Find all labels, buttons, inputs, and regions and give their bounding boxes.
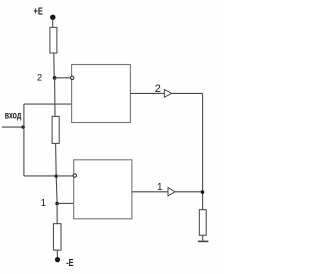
- svg-text:-E: -E: [66, 258, 74, 269]
- resistor R3: [53, 224, 61, 250]
- junction dot (R2 bottom net with input branch): [55, 174, 58, 177]
- input terminal junction dot: [22, 125, 25, 128]
- wire R2 bottom through junction to node 1: [56, 143, 58, 203]
- buffer triangle (output 2): [164, 90, 171, 98]
- resistor R4: [199, 210, 206, 236]
- wire R4 bottom to ground: [202, 235, 204, 241]
- ground bar: [198, 240, 209, 242]
- wire +E terminal to R1 top: [52, 19, 54, 27]
- U1 input inversion circle: [71, 76, 74, 79]
- wire input vertical branch: [23, 104, 25, 176]
- resistor R2: [52, 116, 59, 143]
- +E supply terminal dot: [50, 15, 55, 20]
- wire buffer 1 to output bus: [175, 191, 203, 193]
- resistor R1: [50, 27, 57, 53]
- wire buffer 2 to output bus corner: [172, 92, 203, 94]
- wire U1 output to buffer: [130, 92, 164, 94]
- comparator U1 box: [72, 65, 131, 123]
- wire R1 bottom to node 2: [53, 53, 55, 78]
- svg-text:2: 2: [155, 83, 161, 95]
- svg-text:2: 2: [37, 72, 42, 83]
- node 1 junction dot: [55, 202, 59, 206]
- -E supply terminal dot: [55, 257, 60, 262]
- output bus junction dot: [201, 190, 205, 194]
- wire R3 bottom to -E terminal: [56, 250, 58, 257]
- node 2 junction dot: [53, 76, 57, 80]
- U2 input inversion circle: [73, 174, 76, 177]
- comparator U2 box: [74, 160, 132, 219]
- buffer triangle (output 1): [168, 188, 175, 197]
- wire output bus vertical: [202, 93, 204, 209]
- svg-text:вход: вход: [5, 110, 22, 121]
- wire input lower branch to U2 upper input: [24, 175, 75, 177]
- wire input lead: [2, 126, 23, 128]
- wire node 1 to U2 lower input: [57, 202, 74, 204]
- wire U2 output to buffer: [132, 191, 168, 193]
- svg-text:+E: +E: [34, 6, 43, 18]
- wire node 1 down to R3 top: [56, 204, 58, 224]
- wire node 2 down to R2 top: [54, 78, 56, 117]
- svg-text:1: 1: [41, 198, 47, 209]
- svg-text:1: 1: [157, 182, 163, 193]
- wire input upper branch to U1 lower input: [24, 103, 72, 105]
- wire node 2 to U1 inverting input: [55, 77, 71, 79]
